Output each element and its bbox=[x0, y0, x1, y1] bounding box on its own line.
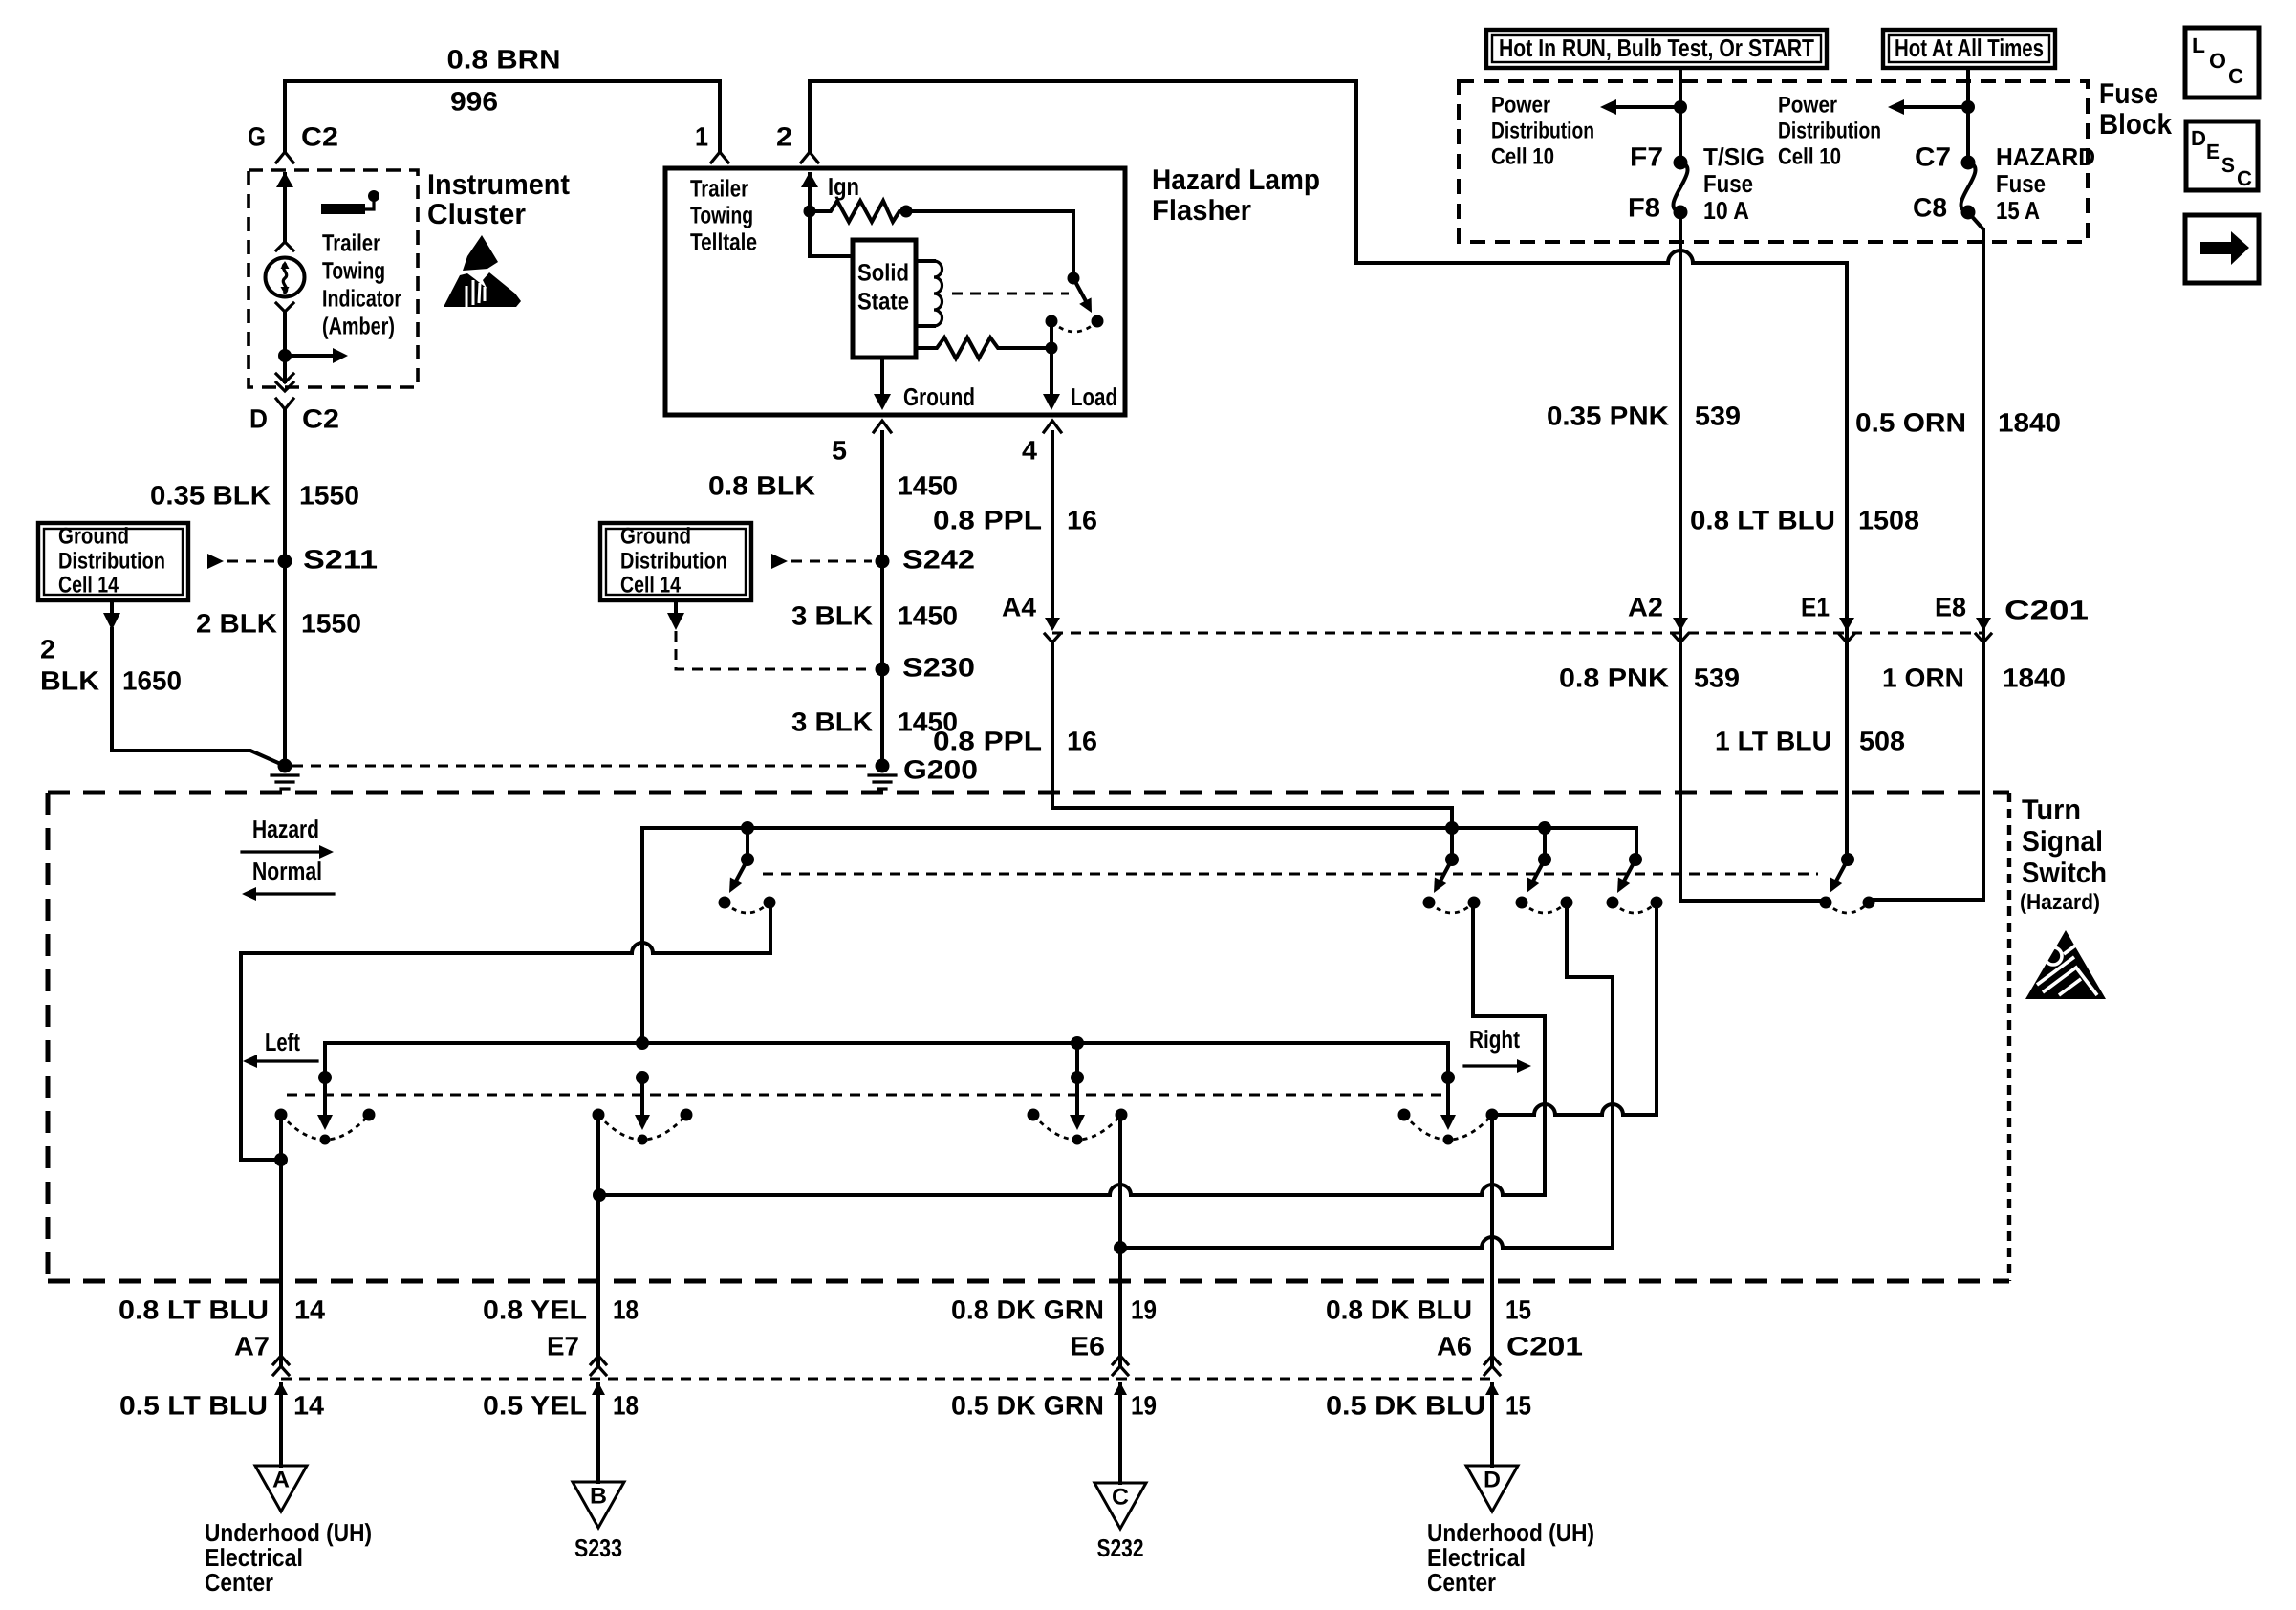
node load bbox=[1046, 342, 1058, 355]
svg-text:C8: C8 bbox=[1913, 192, 1947, 222]
DESC box bbox=[2186, 121, 2258, 190]
svg-text:0.5 LT BLU: 0.5 LT BLU bbox=[119, 1390, 268, 1420]
svg-text:D: D bbox=[249, 403, 268, 433]
hazard lamp flasher box bbox=[665, 168, 1125, 415]
wire lamp to node bbox=[283, 312, 287, 356]
wire 0.5 LT BLU 14 bbox=[279, 1384, 283, 1466]
svg-text:16: 16 bbox=[1067, 505, 1097, 534]
connector pin 5 bbox=[874, 421, 891, 432]
wire hot run to F7 bbox=[1679, 68, 1682, 163]
svg-text:5: 5 bbox=[832, 435, 847, 465]
svg-text:S211: S211 bbox=[303, 544, 378, 574]
svg-text:C7: C7 bbox=[1915, 141, 1951, 171]
splice S211 bbox=[278, 555, 292, 569]
svg-text:E8: E8 bbox=[1935, 592, 1966, 621]
turn switch A (left front) bbox=[318, 1071, 332, 1084]
svg-text:A2: A2 bbox=[1628, 592, 1663, 621]
connector A4 bbox=[1051, 614, 1054, 621]
node LT BLU join bbox=[274, 1153, 288, 1166]
arrow into S242 bbox=[771, 554, 788, 569]
wire node to box bottom bbox=[283, 356, 287, 381]
bottom connector dashed line bbox=[281, 1378, 1492, 1381]
svg-text:L: L bbox=[2192, 33, 2205, 57]
svg-text:Power: Power bbox=[1778, 92, 1837, 118]
arrow down from ground box 1 bbox=[110, 603, 114, 614]
svg-text:E1: E1 bbox=[1801, 592, 1830, 621]
ESD warning symbol (instrument cluster) bbox=[463, 235, 498, 271]
svg-text:2 BLK: 2 BLK bbox=[196, 608, 277, 638]
svg-text:C2: C2 bbox=[302, 403, 339, 433]
connector G C2 at instrument cluster bbox=[276, 152, 293, 163]
resistor R load bbox=[916, 337, 1051, 359]
ESD warning symbol (turn signal switch) bbox=[2025, 930, 2106, 999]
connector D C2 bbox=[276, 399, 293, 409]
triangle A bbox=[255, 1466, 307, 1512]
chevron below lamp bbox=[276, 303, 293, 312]
svg-text:539: 539 bbox=[1694, 663, 1740, 692]
svg-text:Normal: Normal bbox=[252, 857, 322, 885]
node bus switch2 bbox=[636, 1036, 649, 1050]
svg-text:0.5 DK BLU: 0.5 DK BLU bbox=[1326, 1390, 1485, 1420]
relay coil bbox=[916, 261, 934, 326]
coil to switch dashed bbox=[952, 293, 1069, 295]
svg-text:0.8 LT BLU: 0.8 LT BLU bbox=[119, 1295, 269, 1324]
wire YEL crossover bbox=[599, 1193, 1545, 1197]
svg-text:Signal: Signal bbox=[2022, 826, 2103, 858]
flasher switch arm bbox=[1073, 278, 1086, 301]
svg-text:C: C bbox=[2228, 64, 2243, 88]
svg-text:Center: Center bbox=[1427, 1568, 1496, 1597]
wire 0.5 YEL 18 bbox=[596, 1384, 600, 1482]
box Hot In RUN Bulb Test Or START bbox=[1486, 30, 1827, 68]
svg-text:E7: E7 bbox=[547, 1331, 579, 1360]
node ign bbox=[804, 206, 816, 218]
solid state box bbox=[853, 240, 916, 358]
svg-text:O: O bbox=[2209, 49, 2226, 73]
wire DK BLU crossover bbox=[1492, 1113, 1657, 1117]
svg-text:Flasher: Flasher bbox=[1152, 195, 1251, 227]
node bus switch3 bbox=[1071, 1036, 1084, 1050]
flasher switch contact left bbox=[1046, 315, 1058, 328]
svg-text:E6: E6 bbox=[1070, 1331, 1105, 1360]
node power dist right bbox=[1961, 100, 1975, 114]
ground symbol left bbox=[271, 773, 298, 776]
svg-text:A4: A4 bbox=[1002, 592, 1036, 621]
svg-text:T/SIG: T/SIG bbox=[1703, 142, 1765, 171]
svg-text:Cell 10: Cell 10 bbox=[1778, 143, 1841, 169]
arrow down from ground box 2 bbox=[674, 603, 678, 614]
svg-text:Turn: Turn bbox=[2022, 794, 2081, 826]
resistor R ign bbox=[810, 201, 906, 222]
hazard feed bus bbox=[642, 826, 1636, 830]
svg-text:19: 19 bbox=[1131, 1295, 1157, 1324]
svg-text:1550: 1550 bbox=[301, 608, 361, 638]
flasher switch contact top bbox=[1068, 272, 1080, 285]
double chevron down bbox=[276, 374, 293, 382]
indicator lamp circle bbox=[266, 258, 305, 297]
node power dist left bbox=[1674, 100, 1687, 114]
turn switch B (left rear) bbox=[636, 1071, 649, 1084]
connector E8 bbox=[1982, 614, 1985, 621]
svg-text:4: 4 bbox=[1022, 435, 1037, 465]
svg-text:A: A bbox=[272, 1467, 290, 1492]
svg-text:Distribution: Distribution bbox=[1778, 118, 1881, 143]
svg-text:G200: G200 bbox=[903, 754, 978, 784]
wire 0.35 PNK 539 bbox=[1679, 212, 1682, 901]
svg-text:D: D bbox=[2191, 126, 2206, 150]
svg-text:Cell 14: Cell 14 bbox=[58, 572, 119, 598]
left arrow bbox=[256, 1059, 317, 1062]
connector E6 bbox=[1113, 1356, 1128, 1364]
svg-text:Hazard Lamp: Hazard Lamp bbox=[1152, 164, 1320, 196]
fuse HAZARD bbox=[1961, 156, 1976, 170]
svg-text:Hazard: Hazard bbox=[252, 815, 319, 843]
wire ORN 1840 bbox=[1874, 212, 1983, 900]
svg-text:Load: Load bbox=[1071, 382, 1117, 411]
svg-text:(Hazard): (Hazard) bbox=[2020, 889, 2100, 914]
box Hot At All Times bbox=[1883, 30, 2055, 68]
svg-text:(Amber): (Amber) bbox=[322, 314, 395, 340]
load arrow flasher bbox=[1050, 348, 1053, 396]
lamp filament bbox=[283, 264, 286, 293]
svg-text:Cell 10: Cell 10 bbox=[1491, 143, 1554, 169]
wire 0.8 BLK 1450 bbox=[880, 432, 884, 766]
svg-text:0.8 BRN: 0.8 BRN bbox=[447, 44, 561, 74]
svg-text:B: B bbox=[590, 1483, 607, 1509]
connector A2 bbox=[1679, 614, 1682, 621]
svg-text:0.8 PNK: 0.8 PNK bbox=[1559, 663, 1669, 692]
svg-text:Distribution: Distribution bbox=[1491, 118, 1594, 143]
normal arrow bbox=[255, 892, 334, 895]
flasher switch arc bbox=[1051, 321, 1097, 332]
svg-text:C201: C201 bbox=[2004, 595, 2089, 624]
svg-text:3 BLK: 3 BLK bbox=[791, 600, 873, 630]
svg-text:S230: S230 bbox=[902, 652, 975, 682]
turn switch C (right front) bbox=[1071, 1071, 1084, 1084]
svg-text:C: C bbox=[1112, 1484, 1129, 1510]
svg-text:A6: A6 bbox=[1437, 1331, 1472, 1360]
connector pin 1 bbox=[711, 152, 728, 163]
bus ends down bbox=[323, 1043, 327, 1077]
fuse block dashed box bbox=[1459, 81, 2088, 242]
svg-text:10 A: 10 A bbox=[1703, 196, 1749, 225]
connector pin 4 bbox=[1044, 421, 1061, 432]
svg-text:Solid: Solid bbox=[857, 260, 909, 287]
splice S230 bbox=[876, 663, 890, 677]
svg-text:539: 539 bbox=[1695, 401, 1741, 430]
svg-text:F8: F8 bbox=[1628, 192, 1660, 222]
svg-text:Trailer: Trailer bbox=[690, 176, 748, 203]
hazard switch 1 (telltale) bbox=[741, 821, 754, 835]
svg-text:0.8 LT BLU: 0.8 LT BLU bbox=[1690, 505, 1835, 534]
svg-text:2: 2 bbox=[40, 634, 55, 664]
svg-text:15: 15 bbox=[1505, 1295, 1531, 1324]
svg-text:Fuse: Fuse bbox=[2099, 78, 2158, 110]
svg-text:Ground: Ground bbox=[620, 523, 691, 549]
svg-text:Towing: Towing bbox=[322, 258, 385, 285]
svg-text:Distribution: Distribution bbox=[620, 548, 727, 574]
svg-text:1840: 1840 bbox=[1998, 407, 2061, 437]
svg-text:18: 18 bbox=[613, 1295, 639, 1324]
svg-text:1550: 1550 bbox=[299, 480, 359, 510]
fuse T/SIG bbox=[1674, 156, 1688, 170]
wire cluster lamp branch top bbox=[283, 174, 287, 242]
wire switch3 to DK GRN bbox=[1567, 903, 1613, 1248]
connector E7 bbox=[591, 1356, 606, 1364]
ground junction left bbox=[278, 759, 292, 773]
svg-text:0.8 PPL: 0.8 PPL bbox=[933, 505, 1042, 534]
wire switch4 to DK BLU bbox=[1655, 903, 1658, 1115]
svg-text:Distribution: Distribution bbox=[58, 548, 165, 574]
node YEL bbox=[593, 1188, 606, 1202]
svg-text:Trailer: Trailer bbox=[322, 230, 380, 257]
arrow power distribution left bbox=[1617, 105, 1680, 109]
svg-text:Fuse: Fuse bbox=[1703, 169, 1753, 198]
connector E1 bbox=[1845, 614, 1849, 621]
svg-text:HAZARD: HAZARD bbox=[1996, 142, 2095, 171]
ground arrow flasher bbox=[880, 358, 884, 396]
wire telltale switch to LT BLU bbox=[241, 903, 770, 1160]
row2 actuator dashed bbox=[287, 1094, 1448, 1097]
svg-text:14: 14 bbox=[294, 1295, 325, 1324]
svg-text:Right: Right bbox=[1469, 1025, 1520, 1054]
svg-text:1: 1 bbox=[695, 121, 708, 151]
svg-text:15 A: 15 A bbox=[1996, 196, 2040, 225]
svg-text:A7: A7 bbox=[234, 1331, 270, 1360]
svg-text:BLK: BLK bbox=[40, 665, 99, 695]
hazard arrow bbox=[242, 850, 320, 853]
bus left drop bbox=[640, 828, 644, 1043]
svg-text:S242: S242 bbox=[902, 544, 975, 574]
wire DK GRN crossover bbox=[1120, 1246, 1613, 1250]
wire 0.8 LT BLU 14 bbox=[279, 1115, 283, 1366]
svg-text:S: S bbox=[2221, 153, 2235, 177]
wire hot all times to C7 bbox=[1966, 68, 1970, 163]
node solid state top bbox=[900, 206, 913, 218]
svg-text:G: G bbox=[248, 121, 266, 151]
chevron above lamp bbox=[276, 242, 293, 250]
turn signal stalk switch bbox=[1841, 853, 1854, 866]
svg-text:996: 996 bbox=[450, 86, 498, 116]
svg-text:Ground: Ground bbox=[903, 382, 975, 411]
svg-text:0.8 BLK: 0.8 BLK bbox=[708, 470, 815, 500]
wire flasher pin 2 to fuse block bbox=[810, 81, 1668, 263]
wire 0.8 DK BLU 15 bbox=[1490, 1115, 1494, 1366]
ign arrow bbox=[801, 172, 818, 187]
svg-text:1840: 1840 bbox=[2003, 663, 2066, 692]
svg-text:0.5 ORN: 0.5 ORN bbox=[1855, 407, 1966, 437]
wire 0.5 DK GRN 19 bbox=[1118, 1384, 1122, 1483]
svg-text:C201: C201 bbox=[1506, 1331, 1583, 1360]
svg-text:0.5 YEL: 0.5 YEL bbox=[483, 1390, 587, 1420]
arrow up into cluster bbox=[276, 172, 293, 187]
svg-text:16: 16 bbox=[1067, 726, 1097, 755]
ground G200 bbox=[876, 759, 890, 773]
svg-text:0.8 PPL: 0.8 PPL bbox=[933, 726, 1042, 755]
svg-text:Cell 14: Cell 14 bbox=[620, 572, 682, 598]
ground symbol G200 bbox=[869, 773, 896, 776]
svg-text:Ground: Ground bbox=[58, 523, 129, 549]
wire bus drop switch3 bbox=[1075, 1043, 1079, 1077]
ORN feed wire bbox=[1869, 898, 1874, 902]
svg-text:D: D bbox=[1484, 1467, 1501, 1492]
wire switch2 to YEL bbox=[1473, 903, 1545, 1195]
wire contact to load node bbox=[1050, 321, 1053, 348]
hazard switch 4 bbox=[1629, 853, 1642, 866]
svg-text:Hot In RUN, Bulb Test, Or STAR: Hot In RUN, Bulb Test, Or START bbox=[1499, 33, 1814, 62]
svg-text:Center: Center bbox=[205, 1568, 273, 1597]
arrow power distribution right bbox=[1905, 105, 1968, 109]
svg-text:Towing: Towing bbox=[690, 203, 753, 229]
instrument cluster dashed box bbox=[249, 170, 418, 387]
wire 2 BLK 1650 bbox=[112, 629, 285, 766]
wire 0.8 BRN 996 from instrument cluster to flasher pin 1 bbox=[285, 81, 720, 151]
svg-text:3 BLK: 3 BLK bbox=[791, 707, 873, 736]
wire PPL into switch bbox=[1052, 642, 1452, 828]
svg-text:14: 14 bbox=[293, 1390, 324, 1420]
hazard switch 2 bbox=[1445, 821, 1459, 835]
wire ign to solid state bbox=[810, 211, 853, 256]
svg-text:S232: S232 bbox=[1097, 1534, 1144, 1562]
wire 0.5 DK BLU 15 bbox=[1490, 1384, 1494, 1466]
wire 0.8 PPL 16 load bbox=[1051, 432, 1054, 626]
wire 0.8 DK GRN 19 bbox=[1118, 1115, 1122, 1366]
svg-text:1 LT BLU: 1 LT BLU bbox=[1715, 726, 1831, 755]
svg-text:Cluster: Cluster bbox=[427, 199, 526, 230]
triangle B bbox=[573, 1482, 624, 1528]
dashed elbow to S230 bbox=[676, 631, 872, 669]
PNK feed to stalk switch bbox=[1680, 899, 1820, 903]
svg-text:2: 2 bbox=[776, 121, 792, 151]
svg-text:1 ORN: 1 ORN bbox=[1882, 663, 1964, 692]
ground link dashed bbox=[292, 765, 871, 768]
right arrow bbox=[1464, 1064, 1518, 1067]
direction arrow box bbox=[2185, 215, 2259, 283]
svg-text:1450: 1450 bbox=[898, 600, 958, 630]
ground distribution box 2 bbox=[600, 523, 751, 600]
svg-text:Left: Left bbox=[265, 1028, 300, 1056]
triangle D bbox=[1466, 1466, 1518, 1512]
svg-text:State: State bbox=[857, 289, 909, 315]
svg-text:0.5 DK GRN: 0.5 DK GRN bbox=[951, 1390, 1104, 1420]
svg-text:1508: 1508 bbox=[1858, 505, 1919, 534]
svg-text:19: 19 bbox=[1131, 1390, 1157, 1420]
svg-text:0.35 PNK: 0.35 PNK bbox=[1547, 401, 1669, 430]
trailer hitch icon bbox=[321, 204, 365, 214]
svg-text:Block: Block bbox=[2099, 109, 2172, 141]
connector A7 bbox=[273, 1356, 289, 1364]
svg-text:Fuse: Fuse bbox=[1996, 169, 2046, 198]
svg-text:0.8 YEL: 0.8 YEL bbox=[483, 1295, 587, 1324]
connector A6 bbox=[1484, 1356, 1500, 1364]
svg-text:Ign: Ign bbox=[828, 172, 859, 201]
row1 actuator dashed bbox=[763, 873, 1818, 876]
ground distribution box 1 bbox=[38, 523, 188, 600]
svg-text:Switch: Switch bbox=[2022, 858, 2107, 889]
svg-text:S233: S233 bbox=[574, 1534, 622, 1562]
bus right drop bbox=[1635, 828, 1638, 859]
wire to flasher switch bbox=[906, 211, 1073, 272]
svg-text:0.8 DK GRN: 0.8 DK GRN bbox=[951, 1295, 1104, 1324]
C201 dashed line bbox=[1052, 632, 1983, 635]
triangle C bbox=[1094, 1483, 1146, 1529]
svg-text:1650: 1650 bbox=[122, 665, 182, 695]
splice S242 bbox=[876, 555, 890, 569]
left turn bus bbox=[325, 1041, 1448, 1045]
arrow into S211 bbox=[207, 554, 224, 569]
wire 0.35 BLK 1550 bbox=[283, 409, 287, 766]
svg-text:15: 15 bbox=[1505, 1390, 1531, 1420]
flasher switch contact right bbox=[1092, 315, 1104, 328]
svg-text:0.8 DK BLU: 0.8 DK BLU bbox=[1326, 1295, 1472, 1324]
turn switch D (right rear) bbox=[1441, 1071, 1455, 1084]
connector pin 2 bbox=[801, 152, 818, 163]
node with right arrow bbox=[278, 349, 292, 362]
svg-text:Hot At All Times: Hot At All Times bbox=[1895, 33, 2044, 62]
turn signal switch dashed box bbox=[48, 791, 2009, 795]
svg-text:Power: Power bbox=[1491, 92, 1550, 118]
wire 0.8 YEL 18 bbox=[596, 1115, 600, 1366]
svg-text:508: 508 bbox=[1859, 726, 1905, 755]
svg-text:E: E bbox=[2206, 140, 2220, 163]
svg-text:Telltale: Telltale bbox=[690, 229, 757, 256]
hazard switch 3 bbox=[1538, 821, 1551, 835]
svg-text:1450: 1450 bbox=[898, 470, 958, 500]
LOC box bbox=[2185, 28, 2259, 98]
node DK GRN bbox=[1114, 1241, 1127, 1254]
svg-text:Indicator: Indicator bbox=[322, 286, 401, 313]
svg-text:C2: C2 bbox=[301, 121, 338, 151]
svg-text:18: 18 bbox=[613, 1390, 639, 1420]
wire 0.8 LT BLU 1508 bbox=[1845, 263, 1849, 859]
svg-text:0.35 BLK: 0.35 BLK bbox=[150, 480, 271, 510]
svg-text:Instrument: Instrument bbox=[427, 169, 570, 201]
svg-text:F7: F7 bbox=[1630, 141, 1663, 171]
svg-text:C: C bbox=[2237, 166, 2252, 190]
